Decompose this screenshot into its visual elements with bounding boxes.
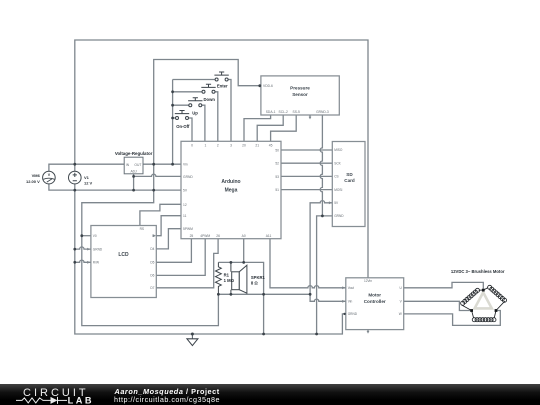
node ground rail drop xyxy=(262,333,265,336)
svg-text:Down: Down xyxy=(204,97,216,102)
svg-text:R1: R1 xyxy=(224,272,230,277)
svg-text:Voltage-Regulator: Voltage-Regulator xyxy=(115,151,153,156)
wire rail to SW2 xyxy=(173,91,202,93)
svg-text:D6: D6 xyxy=(150,274,154,278)
svg-text:Motor: Motor xyxy=(368,293,381,298)
wire Arduino pin 45 to SS-5 xyxy=(271,115,297,141)
wire rail to SW1 xyxy=(173,79,215,81)
svg-text:12.00 V: 12.00 V xyxy=(26,179,40,184)
svg-text:Enter: Enter xyxy=(217,84,228,89)
wire Arduino 25 to LCD D5 xyxy=(156,239,191,263)
wire Arduino 12 to LCD RS xyxy=(140,204,181,225)
pin arrows xyxy=(87,201,345,302)
svg-text:ADJ: ADJ xyxy=(130,169,137,173)
svg-text:V1: V1 xyxy=(84,175,90,180)
svg-text:50: 50 xyxy=(275,149,279,153)
wire regulator OUT to Arduino Vin xyxy=(143,163,181,165)
node switch rail SW4 xyxy=(171,117,174,120)
wire 5V net: speaker rail up through LCD V0 riser to 5V/Vin rows and Pressure Sensor VDD-6 xyxy=(82,60,261,326)
svg-text:D7: D7 xyxy=(150,286,154,290)
svg-text:SCK: SCK xyxy=(334,161,341,165)
node V1 top xyxy=(73,163,76,166)
svg-text:RS: RS xyxy=(140,227,144,231)
node switch rail SW2 xyxy=(171,90,174,93)
wire SW3 to Arduino pin 1 xyxy=(202,105,205,141)
Arduino Mega block U1 xyxy=(181,141,281,238)
wire speaker top rail and right drop to ground rail xyxy=(218,262,263,334)
svg-text:Sensor: Sensor xyxy=(292,92,308,97)
svg-text:SD: SD xyxy=(346,172,353,177)
node speaker bottom xyxy=(230,293,233,296)
svg-text:GRND: GRND xyxy=(348,312,358,316)
node V1 bottom xyxy=(73,189,76,192)
pushbutton switch SW4 On-Off xyxy=(175,111,189,120)
node MC GRND pin xyxy=(343,313,345,315)
svg-text:3: 3 xyxy=(230,144,232,148)
speaker SPKR1 xyxy=(231,262,247,294)
MC bottom stub xyxy=(367,330,369,332)
svg-text:2: 2 xyxy=(217,144,219,148)
svg-text:53: 53 xyxy=(275,175,279,179)
svg-text:SS-5: SS-5 xyxy=(293,110,300,114)
wire top rail VM6 to regulator IN xyxy=(49,164,124,171)
node SD GRND / GRND-3 xyxy=(321,215,324,218)
CircuitLab logo xyxy=(0,384,110,405)
pushbutton switch SW2 Down xyxy=(201,84,215,93)
svg-text:Card: Card xyxy=(344,178,355,183)
svg-text:25: 25 xyxy=(190,234,194,238)
resistor R1 labels xyxy=(224,272,235,282)
wire bottom rail VM6/V1/ADJ to Arduino 5V xyxy=(49,184,181,190)
svg-text:V0: V0 xyxy=(93,234,97,238)
svg-text:MISO: MISO xyxy=(334,148,343,152)
node A0 rail xyxy=(242,261,245,264)
wire Arduino 5PWM to LCD D4 xyxy=(156,229,181,249)
svg-text:D4: D4 xyxy=(150,247,154,251)
wire Arduino 11 to LCD E xyxy=(156,216,181,236)
wire MC W to motor right terminal xyxy=(404,311,501,326)
svg-text:1 MΩ: 1 MΩ xyxy=(224,278,235,283)
svg-text:LCD: LCD xyxy=(118,252,129,258)
svg-text:SDA-1: SDA-1 xyxy=(266,110,276,114)
wire rail to SW3 xyxy=(173,104,189,106)
svg-text:12Vin: 12Vin xyxy=(364,279,372,283)
wire speaker bottom rail to SD-5V riser xyxy=(218,293,310,295)
voltage source V1 xyxy=(69,171,82,184)
wire SW1 to Arduino pin 3 xyxy=(228,80,231,142)
delta glyph xyxy=(475,292,492,308)
node speaker top xyxy=(230,261,233,264)
wire LCD V0 tap xyxy=(82,235,91,237)
node ADJ rail xyxy=(132,189,135,192)
svg-text:26: 26 xyxy=(216,234,220,238)
wire LCD R/W to ground rail (hop at x=81.8) xyxy=(75,260,91,262)
wire Pressure Sensor GRND-3 down to SD GRND (hops over 4 SPI wires) xyxy=(320,115,322,216)
Motor Controller block xyxy=(346,278,404,334)
node ADJ/GRND xyxy=(132,175,135,178)
svg-text:12: 12 xyxy=(183,203,187,207)
wire Arduino 53 to SD CS xyxy=(281,175,332,177)
node R1 bottom xyxy=(217,293,220,296)
voltmeter VM6 xyxy=(43,171,56,184)
svg-text:5PWM: 5PWM xyxy=(183,227,193,231)
unconnected pin 4 stub xyxy=(309,115,311,117)
motor terminal dots xyxy=(482,289,485,292)
svg-text:Vin: Vin xyxy=(348,300,353,304)
node Vin switch rail xyxy=(171,163,174,166)
svg-text:Up: Up xyxy=(192,110,198,115)
svg-text:A11: A11 xyxy=(266,234,272,238)
wire SW2 to Arduino pin 2 xyxy=(215,92,218,142)
bottom winding xyxy=(472,311,474,318)
node LCD R/W rail xyxy=(73,261,76,264)
wire Arduino 4PWM to LCD D6 xyxy=(156,239,205,276)
wire V1 bottom stub xyxy=(74,184,76,190)
svg-text:20: 20 xyxy=(242,144,246,148)
svg-text:VDD-6: VDD-6 xyxy=(263,84,273,88)
node LCD V0 xyxy=(80,234,83,237)
svg-text:R/W: R/W xyxy=(93,261,99,265)
node LCD GRND rail xyxy=(73,248,76,251)
wire V1 top stub xyxy=(74,164,76,171)
node spkr rail drop xyxy=(262,293,265,296)
svg-text:SCL-2: SCL-2 xyxy=(279,110,289,114)
svg-text:52: 52 xyxy=(275,162,279,166)
LCD block xyxy=(91,226,156,298)
svg-text:45: 45 xyxy=(269,144,273,148)
SD Card block xyxy=(332,142,365,227)
svg-text:CS: CS xyxy=(334,175,338,179)
svg-text:SPKR1: SPKR1 xyxy=(251,275,266,280)
voltage regulator block xyxy=(115,151,153,174)
footer bar xyxy=(0,384,540,405)
svg-text:12VDC 3~ Brushless Motor: 12VDC 3~ Brushless Motor xyxy=(451,269,505,274)
svg-text:GRND: GRND xyxy=(334,214,344,218)
wire Arduino 51 to SD MOSI xyxy=(281,189,332,191)
resistor R1 1M xyxy=(216,262,222,294)
wire regulator ADJ down xyxy=(133,174,135,190)
wire Arduino A11 to MC Vout (hops at x=310.1 and x=316.6) xyxy=(270,239,346,288)
wire SW4 to Arduino pin 0 xyxy=(189,118,192,141)
wire MC V to motor left terminal xyxy=(404,301,471,310)
svg-text:Controller: Controller xyxy=(364,299,386,304)
svg-text:Vin: Vin xyxy=(183,163,188,167)
svg-text:On-Off: On-Off xyxy=(176,124,190,129)
svg-text:MOSI: MOSI xyxy=(334,188,342,192)
node spkr rail 5V riser xyxy=(309,293,312,296)
svg-text:4PWM: 4PWM xyxy=(200,234,210,238)
svg-text:A0: A0 xyxy=(242,234,246,238)
svg-text:GRND: GRND xyxy=(183,175,193,179)
svg-text:8 Ω: 8 Ω xyxy=(251,281,258,286)
svg-text:VM6: VM6 xyxy=(32,173,41,178)
wire Arduino 50 to SD MISO xyxy=(281,149,332,151)
svg-text:OUT: OUT xyxy=(134,163,141,167)
svg-text:D5: D5 xyxy=(150,261,154,265)
wire LCD GRND to ground rail (hop at x=81.8) xyxy=(75,247,91,249)
node VDD-6 xyxy=(258,84,261,87)
wire SD GRND down to ground rail xyxy=(317,216,333,334)
svg-text:Vout: Vout xyxy=(348,286,354,290)
node 5V rail riser xyxy=(152,189,155,192)
node Vin riser xyxy=(152,163,155,166)
wire V1+ to Motor Controller 12Vin (outer loop) xyxy=(75,40,368,278)
svg-text:LAB: LAB xyxy=(68,395,94,405)
wire Arduino A0 down to speaker rail xyxy=(243,239,245,263)
svg-text:Mega: Mega xyxy=(225,188,238,194)
left winding xyxy=(461,305,471,311)
svg-text:GRND: GRND xyxy=(93,247,103,251)
Pressure Sensor block xyxy=(261,76,339,120)
wire MC U to motor top terminal xyxy=(404,282,484,288)
svg-text:Arduino: Arduino xyxy=(221,179,240,185)
svg-text:11: 11 xyxy=(183,214,187,218)
svg-text:Pressure: Pressure xyxy=(290,86,310,91)
pushbutton switch SW3 Up xyxy=(188,98,202,107)
svg-text:51: 51 xyxy=(275,188,279,192)
svg-text:GRND-3: GRND-3 xyxy=(316,110,329,114)
pushbutton switch SW1 Enter xyxy=(214,72,228,81)
wire Arduino 52 to SD SCK xyxy=(281,162,332,164)
wire rail to SW4 xyxy=(173,117,176,119)
svg-text:0: 0 xyxy=(191,144,193,148)
node ground rail SD xyxy=(315,333,318,336)
wire main ground rail V1- to MC GRND xyxy=(75,190,346,334)
svg-text:1: 1 xyxy=(204,144,206,148)
svg-text:21: 21 xyxy=(255,144,259,148)
svg-text:12 V: 12 V xyxy=(84,181,93,186)
wire Arduino pin 21 to SCL-2 xyxy=(257,115,283,141)
ground symbol xyxy=(187,334,198,346)
brushless motor M1 xyxy=(451,269,507,322)
node switch rail SW3 xyxy=(171,104,174,107)
wire switch left rail xyxy=(172,80,174,165)
wire Arduino 26 to LCD D7 xyxy=(156,239,218,288)
wire Arduino pin 20 to SDA-1 xyxy=(244,115,271,141)
svg-text:W: W xyxy=(399,312,402,316)
wire Arduino GRND to ground rail (hop at x=153.7) xyxy=(134,174,181,176)
right winding xyxy=(483,288,488,291)
wire SD 5V down to MC Vin (hops at x=322.4 and x=316.6) xyxy=(310,201,346,302)
